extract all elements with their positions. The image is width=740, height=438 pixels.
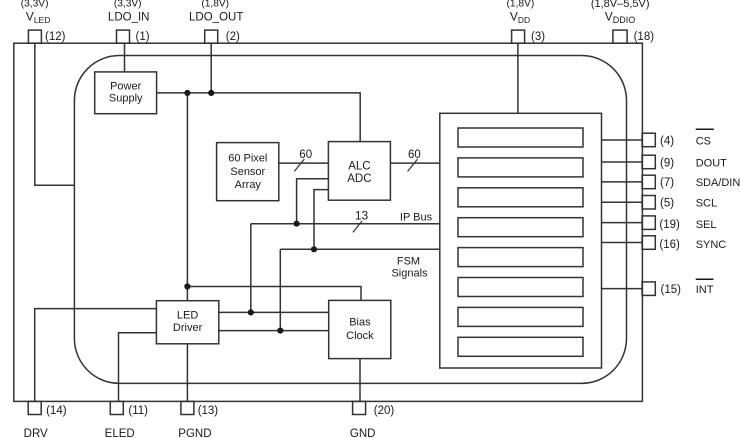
pin 14 DRV square [28, 401, 41, 414]
svg-text:Power: Power [110, 81, 142, 93]
pin 20 GND square [353, 401, 366, 414]
svg-text:(15): (15) [661, 284, 682, 296]
svg-text:DRV: DRV [24, 428, 48, 438]
register bar 3 [458, 188, 583, 207]
wire sensor array to ALC ADC [279, 162, 329, 164]
svg-text:SDA/DIN: SDA/DIN [696, 177, 740, 189]
svg-text:(5): (5) [660, 198, 674, 210]
svg-text:(16): (16) [659, 239, 680, 251]
svg-text:LDO_OUT: LDO_OUT [189, 12, 243, 24]
svg-text:Signals: Signals [391, 268, 428, 280]
junction LDO_OUT on power rail [208, 90, 214, 96]
overline CS [696, 128, 714, 130]
svg-text:(19): (19) [659, 219, 680, 231]
wire FSM drop to LED wire [279, 249, 281, 330]
svg-text:(3,3V): (3,3V) [21, 0, 49, 10]
pin 3 VDD square [512, 30, 525, 43]
svg-text:13: 13 [355, 208, 369, 222]
wire FSM signals line [280, 248, 440, 250]
wire LDO_IN pin1 down to Power Supply [124, 43, 126, 72]
block Bias Clock [329, 300, 391, 358]
wire register bank to pin 9 [602, 161, 643, 163]
pin 15 INT square [642, 282, 655, 296]
wire branch to Bias Clock top [187, 287, 361, 301]
svg-text:LED: LED [177, 310, 198, 322]
wire ALC ADC to register bank [390, 162, 439, 164]
svg-text:(7): (7) [660, 177, 674, 189]
svg-text:(13): (13) [198, 405, 219, 417]
wire VLED pin12 down and right to core edge [35, 43, 75, 185]
register bar 6 [458, 278, 583, 297]
wire power rail from Power Supply to ALC ADC top [157, 93, 361, 142]
svg-text:Bias: Bias [349, 316, 371, 328]
pin 19 SEL square [642, 216, 655, 230]
register bar 5 [458, 248, 583, 267]
svg-text:(14): (14) [46, 405, 67, 417]
svg-text:(1,8V–5,5V): (1,8V–5,5V) [591, 0, 650, 10]
bus slash 60 register side [408, 159, 418, 171]
svg-text:SEL: SEL [696, 219, 717, 231]
register bar 1 [458, 128, 583, 147]
wire register bank to pin 16 [602, 242, 643, 244]
svg-text:FSM: FSM [397, 255, 420, 267]
svg-text:LDO_IN: LDO_IN [108, 12, 150, 24]
register bar 4 [458, 218, 583, 237]
pin 16 SYNC square [642, 236, 655, 250]
bus slash 13 IP bus [353, 221, 362, 232]
svg-text:ADC: ADC [347, 173, 371, 185]
svg-text:SYNC: SYNC [696, 239, 727, 251]
svg-text:Clock: Clock [346, 330, 374, 342]
pin 7 SDA/DIN square [642, 175, 655, 189]
wire register bank to pin 15 [602, 288, 643, 290]
pin 1 LDO_IN square [117, 30, 130, 43]
junction FSM drop on LED wire [277, 328, 283, 334]
wire DRV pin14 up to LED Driver [35, 309, 157, 402]
wire LDO_OUT pin2 down to power rail [210, 43, 212, 93]
svg-text:SCL: SCL [696, 198, 717, 210]
svg-text:Driver: Driver [173, 322, 203, 334]
pin 5 SCL square [642, 196, 655, 210]
wire IP Bus drop to LED wire [250, 224, 252, 313]
svg-text:(9): (9) [660, 157, 674, 169]
svg-text:(1,8V): (1,8V) [201, 0, 229, 10]
block register bank [440, 113, 602, 368]
svg-text:(18): (18) [634, 31, 655, 43]
svg-text:DOUT: DOUT [696, 157, 727, 169]
wire register bank to pin 4 [602, 139, 643, 141]
wire register bank to pin 7 [602, 181, 643, 183]
block LED Driver [156, 301, 218, 344]
junction LED drop to Bias branch [184, 283, 190, 289]
wire LED Driver to Bias Clock lower [219, 330, 329, 332]
junction power rail to LED Driver [184, 90, 190, 96]
register bar 2 [458, 158, 583, 177]
svg-text:ELED: ELED [105, 428, 135, 438]
register bar 8 [458, 337, 583, 356]
svg-text:60: 60 [299, 149, 312, 161]
svg-text:VLED: VLED [26, 10, 51, 26]
inner rounded core boundary [74, 56, 626, 384]
pin 11 ELED square [110, 401, 123, 414]
svg-text:PGND: PGND [178, 428, 211, 438]
svg-text:(3,3V): (3,3V) [114, 0, 142, 10]
svg-text:Supply: Supply [109, 92, 143, 104]
svg-text:CS: CS [696, 135, 711, 147]
svg-text:INT: INT [696, 284, 714, 296]
pin 12 VLED square [28, 30, 41, 43]
pin 4 CS square [642, 133, 655, 147]
wire ELED pin11 up to LED Driver [119, 333, 157, 402]
wire register bank to pin 5 [602, 201, 643, 203]
svg-text:ALC: ALC [348, 160, 370, 172]
block ALC ADC [328, 142, 390, 201]
svg-text:(12): (12) [45, 31, 66, 43]
junction IP drop on LED wire [248, 309, 254, 315]
junction ALC on IP Bus [294, 221, 300, 227]
outer chip boundary rectangle [14, 43, 643, 401]
svg-text:(20): (20) [374, 405, 395, 417]
pin 2 LDO_OUT square [205, 30, 218, 43]
svg-text:(4): (4) [660, 135, 674, 147]
svg-text:(2): (2) [226, 31, 240, 43]
pin 13 PGND square [181, 401, 194, 414]
svg-text:60: 60 [408, 149, 421, 161]
wire VDD pin3 down to register bank [517, 43, 519, 113]
svg-text:Array: Array [235, 179, 262, 191]
bus slash 60 sensor side [294, 159, 304, 171]
svg-text:(1): (1) [136, 31, 150, 43]
block Power Supply [95, 72, 157, 114]
overline INT [696, 278, 714, 280]
junction ALC on FSM line [311, 246, 317, 252]
register bar 7 [458, 307, 583, 326]
wire LED Driver to PGND pin13 [186, 344, 188, 402]
wire power rail drop to LED Driver top [186, 93, 188, 301]
pin 18 VDDIO square [613, 30, 627, 43]
svg-text:GND: GND [350, 428, 376, 438]
svg-text:60 Pixel: 60 Pixel [228, 153, 267, 165]
wire IP Bus line [251, 223, 440, 225]
wire ALC ADC to IP Bus [297, 179, 329, 224]
svg-text:VDDIO: VDDIO [605, 10, 636, 26]
block 60 Pixel Sensor Array [217, 143, 279, 201]
wire LED Driver to Bias Clock upper [219, 311, 329, 313]
pin 9 DOUT square [642, 155, 655, 169]
svg-text:(11): (11) [128, 405, 148, 417]
svg-text:(3): (3) [531, 31, 545, 43]
svg-text:Sensor: Sensor [230, 166, 265, 178]
svg-text:VDD: VDD [510, 10, 530, 26]
wire Bias Clock to GND pin20 [359, 359, 361, 402]
wire register bank to pin 19 [602, 222, 643, 224]
svg-text:IP Bus: IP Bus [400, 211, 433, 223]
svg-text:(1,8V): (1,8V) [507, 0, 535, 10]
wire ALC ADC to FSM line [314, 190, 328, 250]
